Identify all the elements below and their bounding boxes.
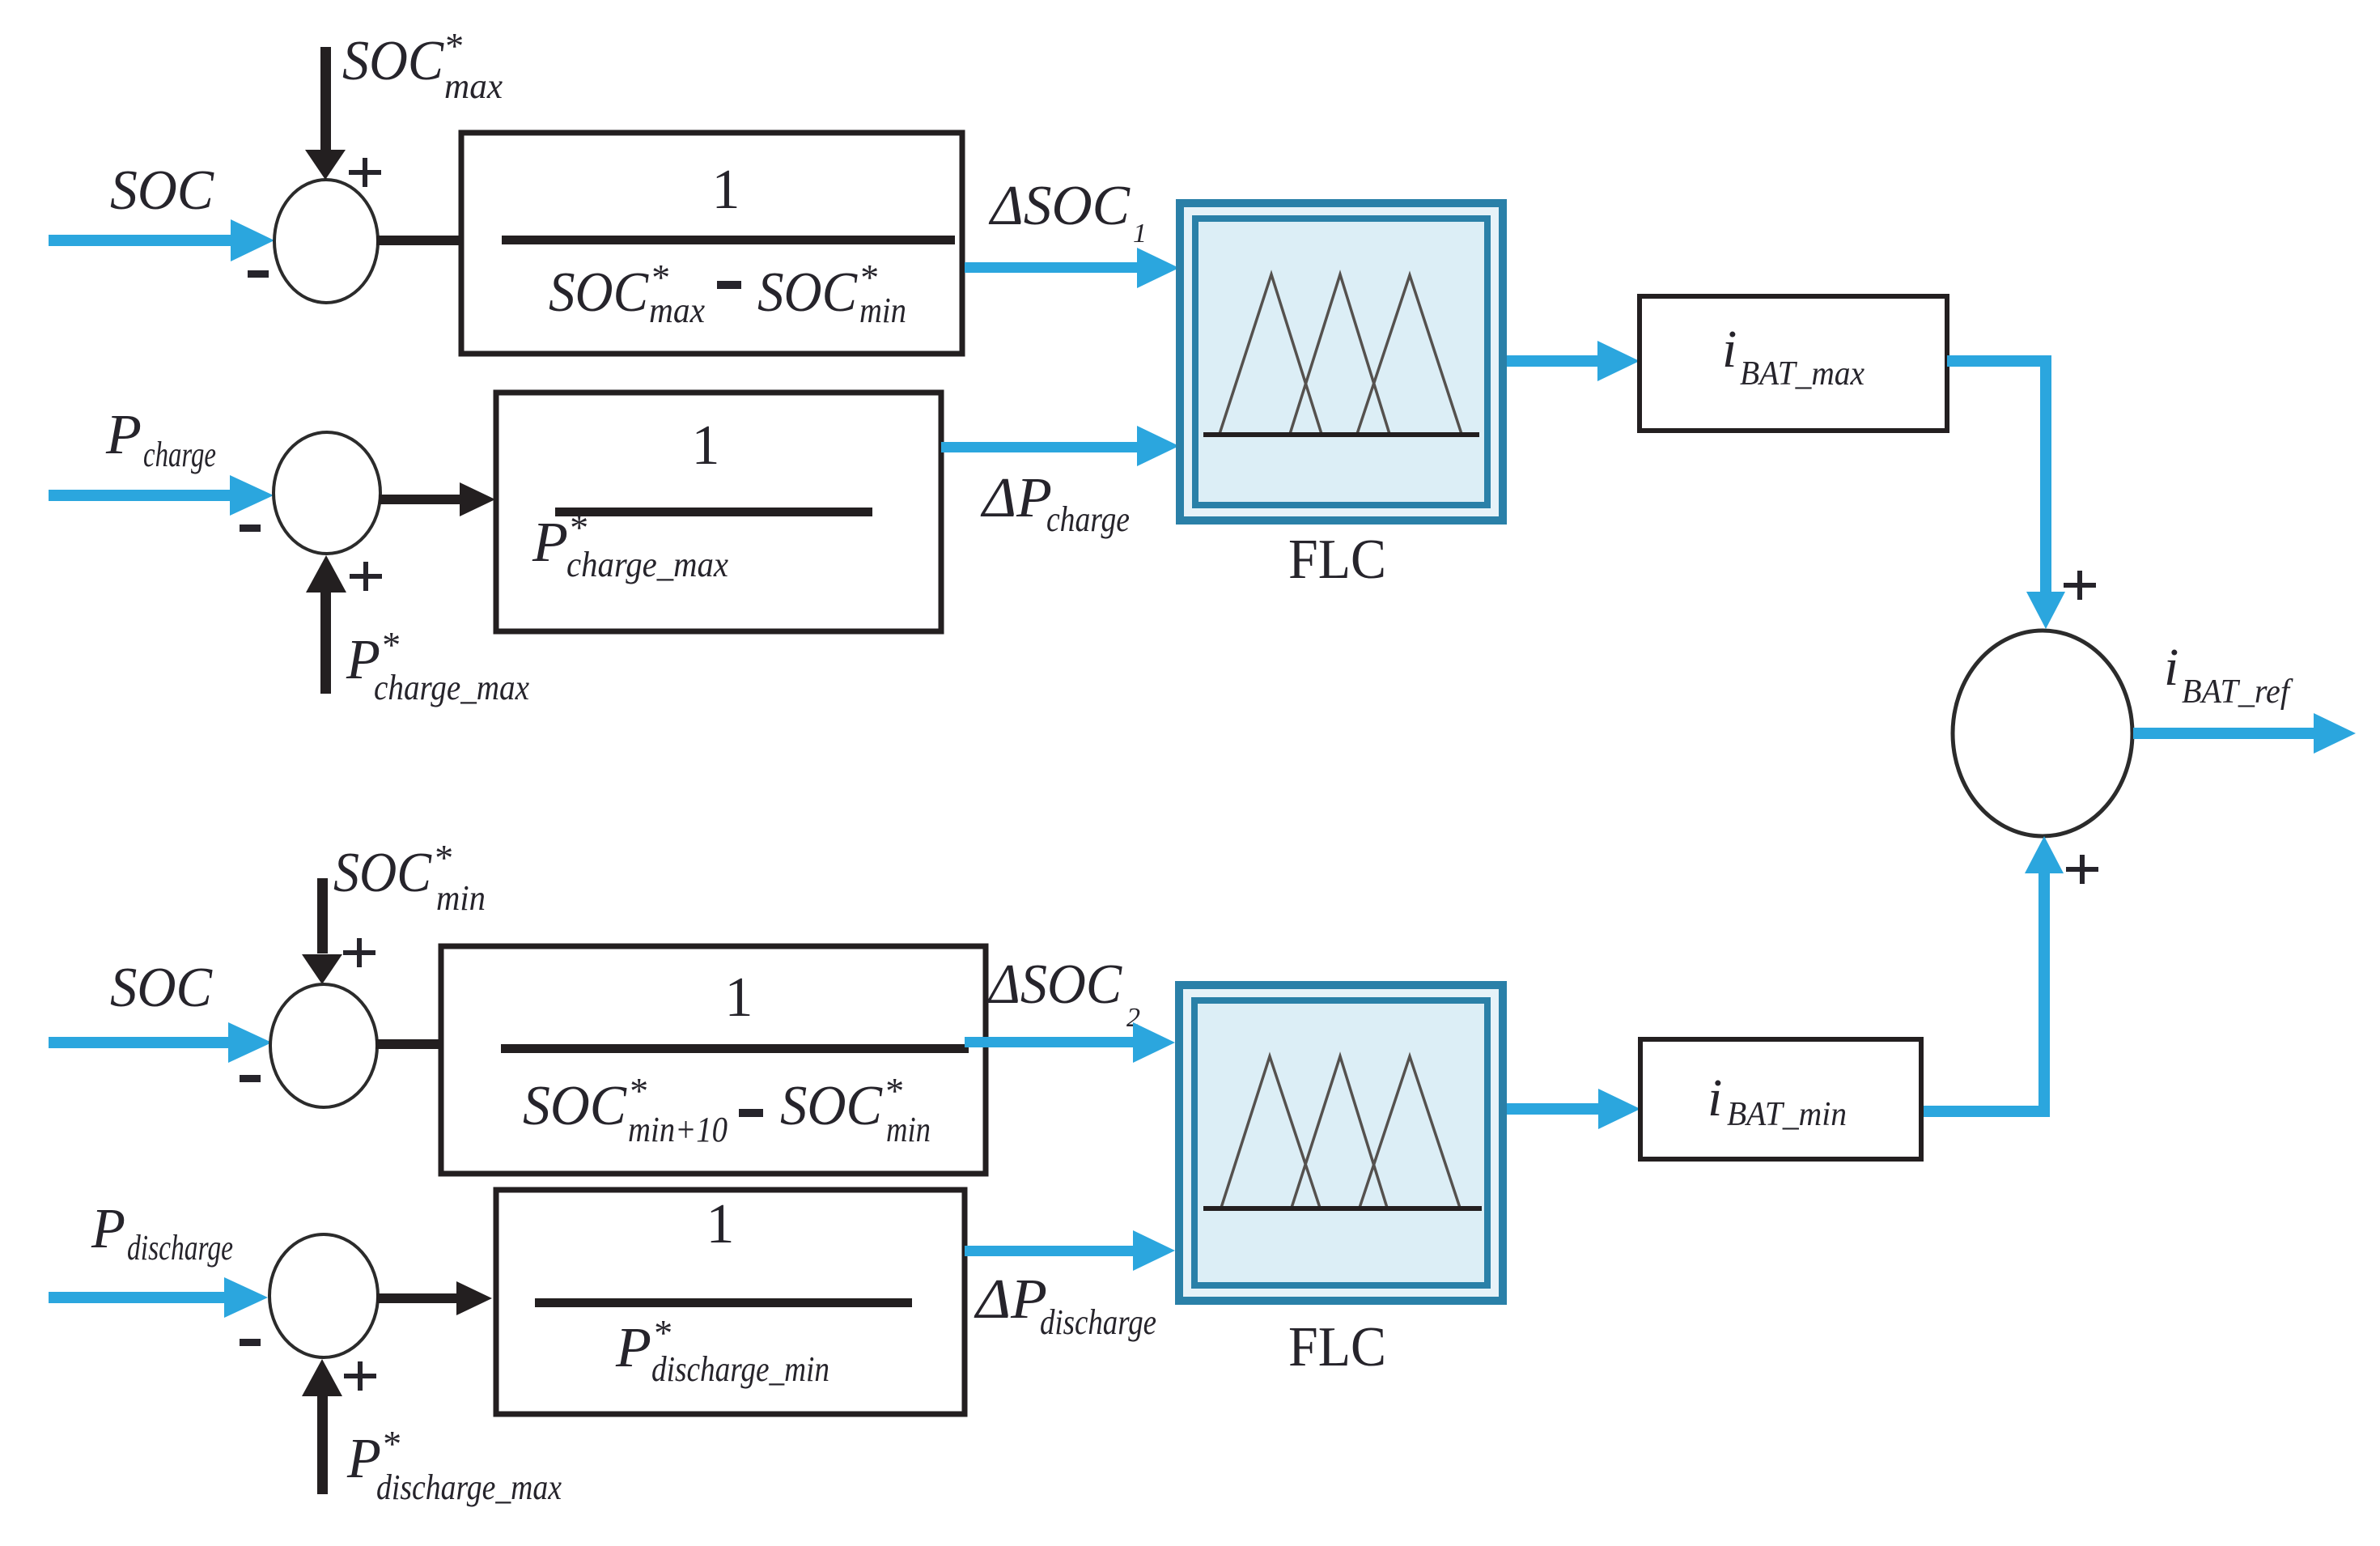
minus sign at S4 left input xyxy=(240,1075,261,1082)
wire: FLC1 output blue arrow into iBATmax xyxy=(1507,341,1640,381)
svg-text:*: * xyxy=(568,507,587,548)
svg-text:discharge: discharge xyxy=(1040,1302,1156,1342)
svg-text:*: * xyxy=(380,624,399,665)
label dPcharge xyxy=(980,467,1130,539)
summing junction S1 xyxy=(274,180,378,303)
FLC1 fuzzy logic controller block xyxy=(1180,203,1503,520)
membership triangle 3 (FLC1) xyxy=(1357,275,1462,434)
svg-text:ΔP: ΔP xyxy=(980,467,1052,529)
plus sign at S5 bottom input xyxy=(344,1361,376,1391)
svg-text:*: * xyxy=(652,1312,671,1353)
svg-text:SOC: SOC xyxy=(549,261,649,324)
wire: iBATmin to summing junction S3 (blue elbow up) xyxy=(1921,836,2064,1111)
FLC2 fuzzy logic controller block xyxy=(1179,985,1503,1301)
wire: S4 output arrow into gain block B3 xyxy=(375,1027,495,1061)
gain block B4: 1/P*discharge_min xyxy=(496,1190,965,1414)
svg-text:*: * xyxy=(381,1423,400,1464)
svg-text:*: * xyxy=(628,1070,647,1111)
svg-text:i: i xyxy=(1722,320,1737,379)
minus sign at S5 left input xyxy=(240,1339,261,1346)
membership triangle 1 (FLC1) xyxy=(1220,274,1322,434)
wire: Pcharge blue input arrow into S2 xyxy=(49,475,274,516)
svg-text:P: P xyxy=(105,404,142,466)
block iBATmax xyxy=(1640,296,1947,431)
axis baseline (FLC1) xyxy=(1203,432,1479,437)
summing junction S4 xyxy=(270,984,377,1107)
plus sign at S3 top input xyxy=(2064,571,2096,600)
plus sign at S2 bottom input xyxy=(350,562,382,591)
svg-text:P: P xyxy=(615,1317,651,1379)
summing junction S5 xyxy=(269,1234,378,1357)
svg-text:charge: charge xyxy=(143,435,216,474)
label iBATref xyxy=(2164,638,2293,711)
minus sign at S1 left input xyxy=(248,270,269,278)
label Pdischarge xyxy=(91,1198,233,1268)
svg-text:ΔSOC: ΔSOC xyxy=(988,175,1131,237)
wire: FLC2 output blue arrow into iBATmin xyxy=(1507,1089,1640,1129)
svg-text:charge_max: charge_max xyxy=(566,545,728,584)
plus sign at S1 top input xyxy=(349,158,381,187)
wire: P*charge_max reference arrow (black, up into S2) xyxy=(306,555,346,694)
plus sign at S3 bottom input xyxy=(2066,855,2098,884)
wire: dSOC2 blue arrow into FLC2 xyxy=(965,1022,1175,1063)
label SOC*max xyxy=(342,25,503,106)
svg-text:*: * xyxy=(443,25,462,66)
gain block B3: 1/(SOC*min+10 - SOC*min) xyxy=(441,946,986,1174)
svg-text:P: P xyxy=(91,1198,125,1260)
wire: Pdischarge blue input arrow into S5 xyxy=(49,1277,268,1318)
wire: SOC blue input arrow into S4 xyxy=(49,1022,272,1063)
svg-text:charge_max: charge_max xyxy=(374,668,529,707)
membership triangle 1 (FLC2) xyxy=(1221,1056,1320,1208)
label P*charge_max xyxy=(346,624,529,707)
wire: SOC*max reference arrow (black, down into S1) xyxy=(305,47,346,180)
summing junction S2 xyxy=(274,432,380,554)
membership triangle 2 (FLC1) xyxy=(1290,274,1389,434)
svg-text:BAT_max: BAT_max xyxy=(1740,355,1865,393)
svg-text:BAT_min: BAT_min xyxy=(1727,1096,1847,1133)
svg-text:SOC: SOC xyxy=(110,957,213,1019)
wire: S2 output arrow into gain block B2 xyxy=(379,482,495,516)
gain block B1: 1/(SOC*max - SOC*min) xyxy=(461,133,962,354)
svg-text:discharge_min: discharge_min xyxy=(651,1349,829,1389)
wire: SOC*min reference arrow (black, down into S4) xyxy=(302,878,342,984)
svg-text:min: min xyxy=(886,1110,931,1149)
svg-text:FLC: FLC xyxy=(1288,1316,1386,1378)
svg-text:min: min xyxy=(859,291,906,330)
svg-text:discharge_max: discharge_max xyxy=(376,1467,562,1507)
membership triangle 3 (FLC2) xyxy=(1360,1056,1460,1208)
wire: S5 output arrow into gain block B4 xyxy=(376,1281,492,1315)
svg-text:*: * xyxy=(884,1070,902,1111)
svg-text:SOC: SOC xyxy=(333,842,432,904)
wire: S1 output arrow into gain block B1 xyxy=(376,223,496,257)
svg-text:charge: charge xyxy=(1046,499,1130,539)
svg-text:max: max xyxy=(649,291,705,330)
label dSOC2 xyxy=(986,954,1140,1033)
svg-text:i: i xyxy=(1708,1068,1722,1128)
label dPdischarge xyxy=(974,1268,1156,1342)
block iBATmin xyxy=(1640,1039,1921,1159)
svg-text:1: 1 xyxy=(712,159,740,221)
svg-text:FLC: FLC xyxy=(1288,529,1386,591)
minus sign at S2 left input xyxy=(240,525,261,532)
svg-text:1: 1 xyxy=(692,414,720,477)
svg-text:*: * xyxy=(433,837,452,878)
svg-text:1: 1 xyxy=(1133,219,1147,248)
wire: P*discharge_max reference arrow (black, up into S5) xyxy=(302,1359,342,1494)
wire: dPdischarge blue arrow into FLC2 xyxy=(965,1230,1175,1271)
summing junction S3 (output junction) xyxy=(1953,631,2132,836)
plus sign at S4 top input xyxy=(343,938,375,967)
wire: dSOC1 blue arrow into FLC1 xyxy=(965,248,1179,288)
membership triangle 2 (FLC2) xyxy=(1292,1056,1387,1208)
label dSOC1 xyxy=(988,175,1147,248)
svg-text:1: 1 xyxy=(706,1193,735,1255)
axis baseline (FLC2) xyxy=(1203,1206,1482,1211)
svg-text:BAT_ref: BAT_ref xyxy=(2182,673,2293,711)
wire: iBATref output blue arrow xyxy=(2133,713,2356,754)
svg-text:min+10: min+10 xyxy=(628,1110,728,1149)
label SOC*min xyxy=(333,837,486,918)
svg-text:1: 1 xyxy=(725,966,753,1029)
svg-text:i: i xyxy=(2164,638,2178,697)
svg-text:SOC: SOC xyxy=(523,1075,627,1137)
wire: dPcharge blue arrow into FLC1 xyxy=(941,426,1179,466)
svg-text:SOC: SOC xyxy=(342,30,444,92)
svg-text:ΔSOC: ΔSOC xyxy=(986,954,1122,1016)
svg-text:max: max xyxy=(444,66,503,106)
svg-text:ΔP: ΔP xyxy=(974,1268,1047,1331)
label Pcharge xyxy=(105,404,216,474)
svg-text:SOC: SOC xyxy=(110,159,214,222)
svg-text:SOC: SOC xyxy=(780,1075,883,1137)
svg-text:min: min xyxy=(436,878,486,918)
wire: SOC blue input arrow into S1 xyxy=(49,219,274,261)
label P*discharge_max xyxy=(346,1423,562,1507)
wire: iBATmax to summing junction S3 (blue elbow down) xyxy=(1947,361,2065,629)
gain block B2: 1/P*charge_max xyxy=(496,393,941,631)
svg-text:SOC: SOC xyxy=(757,261,858,324)
svg-text:discharge: discharge xyxy=(127,1228,233,1268)
svg-text:P: P xyxy=(532,512,568,574)
